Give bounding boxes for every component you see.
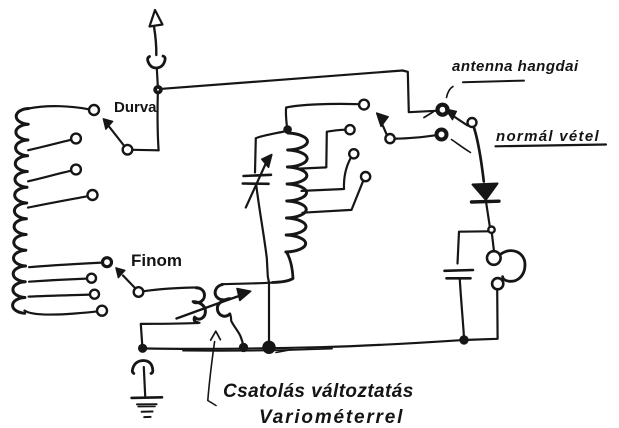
bus overlap stroke bbox=[183, 349, 332, 351]
switch S2 wiper arrow bbox=[453, 116, 468, 126]
svg-text:normál vétel: normál vétel bbox=[496, 128, 600, 145]
tap T4 bbox=[88, 190, 98, 200]
wire corner down to contact bbox=[403, 71, 437, 113]
L2 tap A terminal bbox=[345, 125, 354, 134]
underline antenna hangolas bbox=[463, 81, 524, 83]
L1 bottom lead to tap F4 bbox=[25, 311, 97, 315]
wire L2 top to tap circle bbox=[286, 104, 358, 128]
diode D1 bbox=[473, 184, 498, 200]
variometer L3 return wire bbox=[141, 323, 200, 345]
switch S2 wiper pivot bbox=[468, 118, 477, 127]
tap F3 bbox=[90, 290, 99, 299]
tap T1 bbox=[89, 105, 99, 115]
node A (antenna junction) bbox=[154, 86, 162, 94]
tap T2 bbox=[71, 134, 81, 144]
tap F3 wire bbox=[29, 295, 89, 297]
svg-text:antenna hangdai: antenna hangdai bbox=[452, 58, 579, 75]
svg-text:Csatolás változtatás: Csatolás változtatás bbox=[223, 381, 414, 402]
variometer L4 right winding bbox=[215, 284, 230, 316]
wire node A to antenna switch bbox=[162, 71, 403, 89]
leader normal vetel bbox=[452, 140, 471, 153]
C1 arrow bbox=[246, 163, 266, 208]
antenna socket cup bbox=[148, 56, 166, 68]
node B circle bbox=[488, 227, 494, 233]
wire C2 to bus bbox=[460, 280, 464, 339]
variometer L4 wire to bus bbox=[230, 314, 243, 345]
leader antenna hangolas bbox=[447, 87, 454, 98]
coil L1 (tapped antenna coil) bbox=[13, 109, 29, 314]
tap F4 bbox=[97, 306, 107, 316]
contact: normal vetel bbox=[437, 130, 447, 140]
wire S2 pivot to diode bbox=[474, 127, 484, 182]
bus junction big node bbox=[264, 342, 275, 353]
L2 tap C wire bbox=[303, 182, 363, 213]
wire contact normal vetel to S1 pivot bbox=[395, 135, 437, 138]
annotation arrow to variometer bbox=[211, 331, 221, 340]
switch S1 wiper pivot bbox=[385, 134, 394, 143]
wire overlap tick bbox=[424, 112, 433, 118]
variometer L4 top feed bbox=[222, 283, 272, 285]
bus scribble tick bbox=[276, 350, 292, 353]
ground lead bbox=[144, 367, 145, 396]
wire headphone to bus corner bbox=[467, 290, 498, 340]
variometer L3 feed from Finom pivot bbox=[144, 288, 197, 292]
bottom bus wire bbox=[142, 340, 464, 349]
switch S1 wiper arrow bbox=[382, 123, 387, 135]
wire node C to variable capacitor C1 bbox=[255, 132, 284, 173]
switch Durva wiper arrow bbox=[109, 127, 124, 147]
wire node B to capacitor C2 bbox=[458, 231, 489, 263]
L2 tap A wire bbox=[300, 130, 345, 169]
L2 top tap terminal bbox=[359, 100, 369, 110]
tap F1 bbox=[103, 258, 112, 267]
capacitor C2 bbox=[445, 269, 474, 272]
headphone ear 2 bbox=[492, 278, 503, 289]
bus junction dot right bbox=[460, 336, 468, 344]
variable capacitor C1 plates bbox=[244, 175, 272, 176]
svg-text:Finom: Finom bbox=[131, 251, 182, 270]
tap T3 wire bbox=[28, 171, 71, 182]
headphone band loop bbox=[500, 251, 525, 282]
L2 tap B wire bbox=[302, 159, 351, 191]
tap T4 wire bbox=[28, 196, 87, 207]
wire riser to node A bbox=[158, 94, 159, 151]
svg-text:Variométerrel: Variométerrel bbox=[259, 407, 404, 428]
tap T3 bbox=[71, 165, 81, 175]
ground bars bbox=[132, 396, 162, 399]
L2 tap B terminal bbox=[349, 149, 358, 158]
bus junction dot variometer bbox=[239, 343, 247, 351]
headphone lead bbox=[492, 233, 494, 252]
L1 top lead to tap T1 bbox=[29, 106, 89, 109]
switch Durva wiper pivot bbox=[123, 145, 133, 155]
wire diode to node B bbox=[486, 204, 490, 227]
node C (L2 top junction) bbox=[284, 126, 292, 134]
wire C1 to big bus node bbox=[256, 185, 269, 343]
wire Durva pivot to riser bbox=[133, 149, 159, 152]
variometer L3 left winding bbox=[193, 288, 205, 323]
antenna lead bbox=[157, 68, 158, 86]
L2 tap C terminal bbox=[361, 172, 370, 181]
ground plug arch bbox=[132, 361, 152, 374]
switch Finom wiper arrow bbox=[123, 276, 135, 289]
tap F2 wire bbox=[29, 279, 86, 282]
tap T2 wire bbox=[28, 140, 71, 150]
bus junction dot left (ground) bbox=[139, 344, 147, 352]
switch Finom wiper pivot bbox=[134, 287, 144, 297]
tap F1 wire bbox=[29, 263, 102, 268]
svg-text:Durva: Durva bbox=[114, 99, 157, 116]
tap F2 bbox=[87, 274, 96, 283]
headphone ear 1 bbox=[487, 251, 501, 265]
L2 lower spine bbox=[273, 252, 294, 283]
variometer coupling arrow bbox=[177, 296, 240, 319]
contact: antenna hangolas bbox=[438, 105, 448, 115]
underline normal vetel bbox=[496, 145, 607, 147]
coil L2 (detector coil) bbox=[286, 133, 308, 252]
antenna arrow bbox=[150, 10, 163, 27]
